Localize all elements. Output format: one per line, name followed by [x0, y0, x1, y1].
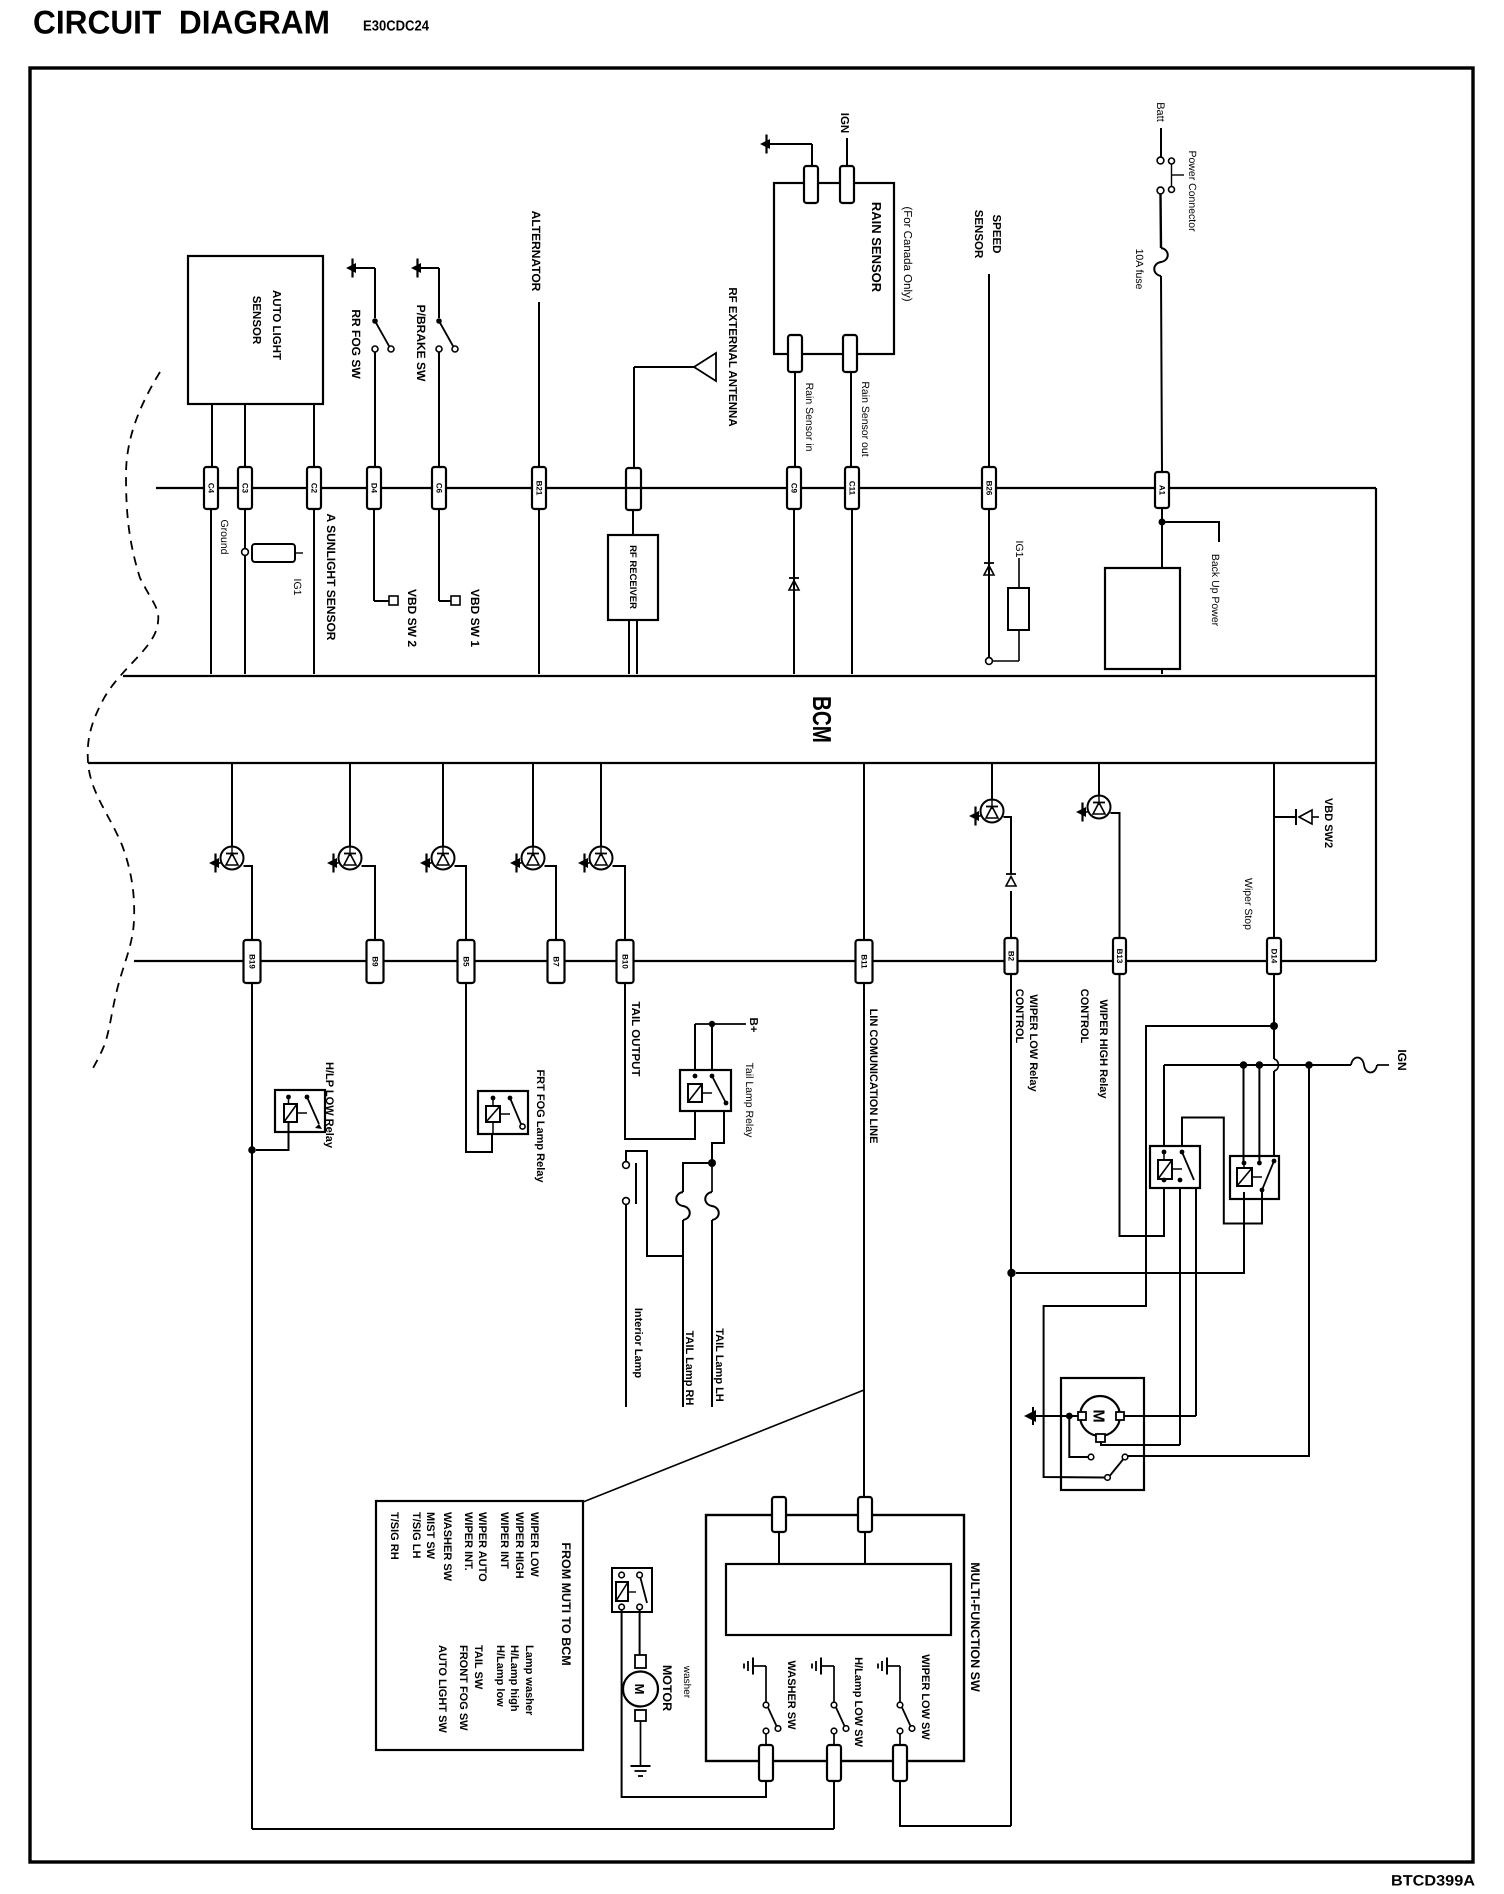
connector C3 — [238, 467, 252, 509]
wire tail relay output — [712, 1111, 724, 1163]
wire BCM output wiper stop to D14 — [1273, 762, 1275, 938]
wire wiper relay1 coil bottom to WIPER HIGH — [1163, 1188, 1165, 1236]
wire from B26 with diode and IG1 resistor — [988, 509, 990, 657]
connector B26 — [982, 467, 996, 509]
connector A1 — [1155, 472, 1169, 508]
box RAIN SENSOR — [774, 183, 894, 354]
fuse tail lamp RH — [676, 1192, 690, 1220]
connector D4 — [367, 467, 381, 509]
svg-text:T/SIG RH: T/SIG RH — [388, 1512, 400, 1560]
svg-text:Lamp washer: Lamp washer — [523, 1645, 535, 1716]
relay wiper relay 1 — [1150, 1146, 1200, 1188]
wire from C3 with IG1 resistor — [244, 509, 246, 674]
svg-text:MIST SW: MIST SW — [424, 1512, 436, 1560]
svg-text:WIPER INT: WIPER INT — [498, 1512, 510, 1569]
svg-text:WIPER LOW Relay: WIPER LOW Relay — [1027, 994, 1039, 1092]
wire wiper relay1 NC contact down — [1179, 1188, 1181, 1445]
wire VBD SW 2 from D4 — [373, 509, 375, 601]
connector C2 — [307, 467, 321, 509]
wire lamp to B13 — [1111, 813, 1120, 938]
connector C4 — [204, 467, 218, 509]
wire TAIL Lamp LH — [711, 1220, 713, 1407]
rain sensor bottom connector pin a — [788, 335, 802, 372]
connector B11 — [856, 940, 873, 983]
svg-text:WASHER SW: WASHER SW — [441, 1512, 453, 1582]
svg-text:Rain Sensor in: Rain Sensor in — [803, 383, 815, 452]
ground washer motor — [631, 1765, 651, 1767]
switch WIPER LOW SW — [886, 1658, 888, 1675]
svg-text:C4: C4 — [206, 483, 215, 494]
svg-text:H/LP LOW Relay: H/LP LOW Relay — [323, 1062, 335, 1149]
svg-text:Wiper Stop: Wiper Stop — [1242, 878, 1254, 930]
svg-text:10A fuse: 10A fuse — [1133, 249, 1145, 290]
wire BCM top bus — [156, 487, 1376, 489]
svg-text:C3: C3 — [240, 483, 249, 494]
rain sensor bottom connector pin b — [843, 335, 857, 372]
svg-text:A SUNLIGHT SENSOR: A SUNLIGHT SENSOR — [324, 514, 338, 641]
box MULTI-FUNCTION SW — [706, 1515, 964, 1761]
svg-text:SENSOR: SENSOR — [972, 210, 984, 259]
wire A SUNLIGHT SENSOR from C2 — [313, 509, 315, 674]
connector B5 — [458, 940, 475, 983]
wire lamp 2 to connector — [362, 866, 376, 940]
svg-text:B26: B26 — [984, 481, 993, 496]
diagonal leader line — [583, 1390, 864, 1502]
wire auto light sensor pin3 to C2 — [313, 404, 315, 467]
fuse tail lamp LH feed — [711, 1163, 713, 1192]
svg-text:RR FOG SW: RR FOG SW — [349, 309, 363, 379]
wire lamp 1 to connector — [244, 866, 253, 940]
antenna RF EXTERNAL ANTENNA — [634, 366, 694, 368]
switch interior lamp — [623, 1162, 630, 1169]
svg-text:C2: C2 — [309, 483, 318, 494]
indicator lamp wiper high — [1088, 796, 1111, 819]
connector B19 — [244, 940, 261, 983]
svg-text:B+: B+ — [747, 1017, 759, 1032]
svg-text:M: M — [632, 1684, 647, 1695]
rail B+ — [695, 1023, 746, 1025]
indicator lamp 3 — [432, 847, 455, 870]
svg-text:H/Lamp LOW SW: H/Lamp LOW SW — [852, 1657, 864, 1747]
connector MF top 2 — [858, 1497, 872, 1532]
svg-text:Power Connector: Power Connector — [1186, 150, 1198, 232]
wire speed sensor to B26 — [988, 274, 990, 467]
wire MF top2 to body — [864, 1532, 866, 1564]
svg-text:B13: B13 — [1115, 949, 1124, 964]
svg-text:P/BRAKE SW: P/BRAKE SW — [414, 305, 428, 382]
connector D14 — [1267, 938, 1281, 974]
wire connector to RF RECEIVER — [632, 510, 634, 535]
wire BCM output 1 — [231, 762, 233, 847]
wire Ground from C4 — [210, 509, 212, 674]
wire tail relay switch to B+ rail — [711, 1024, 713, 1070]
svg-text:Rain Sensor out: Rain Sensor out — [859, 381, 871, 456]
svg-text:FRT FOG Lamp Relay: FRT FOG Lamp Relay — [534, 1069, 546, 1183]
svg-text:(For Canada Only): (For Canada Only) — [901, 206, 913, 301]
svg-text:Interior Lamp: Interior Lamp — [632, 1308, 644, 1379]
wire BCM output wiper high — [1098, 762, 1100, 796]
wire bottom horizontal to H/Lamp LOW SW connector — [252, 1828, 834, 1830]
box RF RECEIVER — [608, 535, 658, 620]
wire BCM band top — [123, 675, 1376, 677]
relay FRT FOG Lamp Relay — [478, 1091, 528, 1134]
indicator lamp 2 — [339, 847, 362, 870]
connector MF bottom h/lamp — [827, 1745, 841, 1781]
wire auto light sensor pin1 to C4 — [211, 404, 213, 467]
svg-text:CONTROL: CONTROL — [1013, 989, 1025, 1044]
wire auto light sensor pin2 to C3 — [244, 404, 246, 467]
svg-text:RF RECEIVER: RF RECEIVER — [627, 545, 638, 609]
svg-text:H/Lamp high: H/Lamp high — [508, 1645, 520, 1712]
connector B13 — [1113, 938, 1126, 974]
svg-text:B5: B5 — [461, 956, 470, 967]
motor washer MOTOR — [635, 1655, 646, 1668]
wire IGN rail to park switch common — [1128, 1065, 1309, 1456]
wire TAIL Lamp RH — [682, 1220, 684, 1407]
svg-text:ALTERNATOR: ALTERNATOR — [529, 211, 543, 292]
wire B10 TAIL OUTPUT to tail lamp relay — [625, 983, 695, 1139]
svg-text:Tail Lamp Relay: Tail Lamp Relay — [743, 1063, 755, 1138]
svg-text:CONTROL: CONTROL — [1078, 989, 1090, 1044]
connector MF top 1 — [772, 1497, 786, 1532]
wire wiper relay1 NO contact to motor+ — [1195, 1188, 1197, 1416]
switch H/Lamp LOW SW — [820, 1658, 822, 1675]
svg-text:IG1: IG1 — [1013, 541, 1025, 558]
svg-text:VBD SW2: VBD SW2 — [1322, 798, 1334, 848]
svg-text:Batt: Batt — [1154, 102, 1166, 122]
wire wiper relay1 common loop to relay2 — [1182, 1118, 1262, 1224]
wire IGN rail to wiper relay2 contact — [1258, 1065, 1260, 1163]
wire B2 WIPER LOW relay control — [1010, 974, 1012, 1273]
svg-text:B11: B11 — [859, 954, 868, 969]
svg-text:FROM MUTI TO BCM: FROM MUTI TO BCM — [559, 1542, 573, 1665]
resistor IG1 (horizontal) — [252, 544, 295, 562]
park switch in motor box — [1088, 1454, 1094, 1460]
inner switch body rectangle — [726, 1564, 951, 1635]
svg-text:MOTOR: MOTOR — [660, 1665, 674, 1711]
svg-text:B19: B19 — [247, 954, 256, 969]
svg-text:FRONT FOG SW: FRONT FOG SW — [457, 1645, 469, 1731]
connector B7 — [548, 940, 565, 983]
connector MF bottom washer — [759, 1745, 773, 1781]
svg-text:MULTI-FUNCTION SW: MULTI-FUNCTION SW — [968, 1562, 982, 1692]
wire B5 to FRT FOG relay — [466, 983, 492, 1152]
wire BCM output wiper low — [991, 762, 993, 800]
connector C9 — [787, 467, 801, 509]
wire relay2 net to wiper low dot — [1016, 1224, 1244, 1274]
svg-text:AUTO LIGHT SW: AUTO LIGHT SW — [436, 1645, 448, 1733]
relay washer — [612, 1568, 652, 1612]
fuse IGN — [1351, 1058, 1377, 1073]
rain sensor top connector pin5 — [840, 166, 854, 203]
relay Tail Lamp Relay — [680, 1070, 731, 1111]
relay H/LP LOW Relay — [275, 1090, 325, 1132]
svg-text:WASHER SW: WASHER SW — [785, 1660, 797, 1730]
wire to tail lamp RH fuse — [683, 1163, 712, 1192]
connector MF bottom wiper low — [893, 1745, 907, 1781]
svg-text:SENSOR: SENSOR — [250, 296, 262, 345]
switch P/BRAKE SW — [411, 263, 421, 273]
wire LIN from BCM to B11 — [863, 762, 865, 940]
svg-text:TAIL OUTPUT: TAIL OUTPUT — [629, 1002, 641, 1077]
wire power connector to fuse — [1159, 194, 1162, 248]
svg-text:RAIN SENSOR: RAIN SENSOR — [869, 202, 884, 293]
wire BCM band bottom — [88, 762, 1376, 764]
svg-text:IG1: IG1 — [291, 579, 303, 596]
wire from A1 down — [1161, 508, 1163, 568]
svg-text:VBD SW 2: VBD SW 2 — [405, 589, 419, 647]
svg-text:C9: C9 — [789, 483, 798, 494]
connector B2 — [1005, 938, 1018, 974]
wire H/LP relay coil to junction — [256, 1122, 289, 1150]
wire BCM output 2 — [349, 762, 351, 847]
wire B13 WIPER HIGH relay control — [1120, 974, 1165, 1236]
fuse 10A — [1154, 248, 1168, 276]
svg-text:IGN: IGN — [1395, 1049, 1409, 1070]
svg-text:RF EXTERNAL ANTENNA: RF EXTERNAL ANTENNA — [726, 287, 738, 426]
wire from C11 to BCM — [851, 509, 853, 674]
wire tail relay coil to B+ rail — [694, 1024, 696, 1070]
wire BCM output 3 — [442, 762, 444, 847]
svg-text:IGN: IGN — [838, 113, 850, 133]
svg-text:C11: C11 — [847, 481, 856, 496]
stub VBD SW2 — [1274, 816, 1295, 818]
svg-text:E30CDC24: E30CDC24 — [363, 19, 429, 35]
wire IGN rail to wiper relay2 coil — [1243, 1065, 1245, 1163]
svg-text:D14: D14 — [1269, 949, 1278, 964]
wire motor bottom pin to relay1 NC — [1101, 1442, 1180, 1445]
wire D14 net crossing IGN rail to relay2 — [1273, 1026, 1275, 1059]
svg-text:B7: B7 — [551, 956, 560, 967]
box back up power — [1105, 568, 1180, 669]
svg-text:washer: washer — [681, 1665, 692, 1699]
wire Back Up Power branch — [1162, 522, 1219, 542]
wire lamp 4 to connector — [545, 866, 557, 940]
connector C6 — [432, 467, 446, 509]
svg-text:B9: B9 — [370, 956, 379, 967]
indicator lamp 5 — [590, 847, 613, 870]
connector antenna (blank) — [626, 468, 641, 510]
wire washer motor to ground — [640, 1721, 642, 1766]
wire from B21 to BCM — [538, 509, 540, 674]
wire IGN rail to wiper relay1 coil — [1163, 1065, 1165, 1146]
wire MF top1 to body — [778, 1532, 780, 1564]
wire lamp 5 to connector — [613, 866, 626, 940]
svg-text:WIPER LOW: WIPER LOW — [528, 1512, 540, 1577]
wire BCM lower bus — [134, 960, 1376, 962]
wire motor right pin to relay1 NO — [1124, 1415, 1196, 1417]
indicator lamp wiper low — [981, 800, 1004, 823]
wire BCM right edge — [1375, 488, 1377, 961]
wire wiper relay2 coil bottom — [1243, 1192, 1245, 1224]
svg-text:B2: B2 — [1006, 951, 1015, 962]
wire Rain Sensor in — [794, 372, 796, 467]
wire D14 wiper stop down — [1273, 974, 1275, 1026]
svg-text:SPEED: SPEED — [990, 215, 1002, 254]
wire Batt to power connector — [1160, 128, 1162, 157]
svg-text:WIPER HIGH Relay: WIPER HIGH Relay — [1097, 999, 1109, 1099]
wire interior lamp switch to RH wire — [626, 1151, 683, 1256]
svg-text:WIPER INT.: WIPER INT. — [462, 1512, 474, 1571]
wire Rain Sensor out — [850, 372, 852, 467]
wire RF RECEIVER to BCM (pair) — [628, 620, 630, 674]
svg-text:BCM: BCM — [807, 696, 837, 743]
svg-text:A1: A1 — [1157, 485, 1166, 496]
box FROM MUTI TO BCM — [376, 1501, 583, 1750]
box AUTO LIGHT SENSOR — [188, 256, 323, 404]
wire BCM output 4 — [532, 762, 534, 847]
wire motor left to feed arrow — [1036, 1415, 1078, 1417]
wire from C9 to BCM with diode — [793, 509, 795, 674]
relay wiper relay 2 — [1230, 1156, 1279, 1199]
svg-text:AUTO LIGHT: AUTO LIGHT — [270, 290, 282, 360]
wire washer relay to washer sw connector — [622, 1610, 766, 1797]
wire B19 long vertical to MF switch — [251, 983, 253, 1829]
wire Interior Lamp — [625, 1204, 627, 1407]
svg-text:WIPER LOW SW: WIPER LOW SW — [919, 1654, 931, 1740]
wire fuse to A1 — [1161, 276, 1162, 472]
wire B11 LIN COMUNICATION LINE — [863, 983, 865, 1497]
svg-text:WIPER HIGH: WIPER HIGH — [513, 1512, 525, 1579]
svg-text:C6: C6 — [434, 483, 443, 494]
svg-text:LIN COMUNICATION LINE: LIN COMUNICATION LINE — [867, 1009, 879, 1144]
wire lamp 3 to connector — [455, 866, 467, 940]
svg-text:D4: D4 — [369, 483, 378, 494]
wire lamp to B2 with diode — [1004, 817, 1012, 874]
ground for rain sensor — [760, 139, 770, 149]
switch RR FOG SW — [346, 263, 356, 273]
svg-text:TAIL Lamp LH: TAIL Lamp LH — [713, 1328, 725, 1402]
switch WASHER SW — [752, 1658, 754, 1675]
rain sensor top connector pin3 — [804, 166, 818, 203]
svg-text:Back Up Power: Back Up Power — [1209, 554, 1221, 627]
svg-text:VBD SW 1: VBD SW 1 — [468, 589, 482, 647]
motor M wiper — [1080, 1396, 1120, 1436]
svg-text:BTCD399A: BTCD399A — [1391, 1873, 1475, 1890]
torn-edge dashed curve — [88, 372, 160, 1072]
wire antenna to connector — [633, 367, 635, 468]
indicator lamp 4 — [522, 847, 545, 870]
indicator lamp 1 — [221, 847, 244, 870]
svg-text:TAIL Lamp RH: TAIL Lamp RH — [683, 1331, 695, 1406]
wire alternator to B21 — [538, 302, 540, 467]
wire wiper stop to park switch — [1044, 1026, 1274, 1478]
box wiper motor — [1061, 1378, 1144, 1490]
connector B21 — [532, 467, 546, 509]
svg-text:M: M — [1090, 1409, 1107, 1422]
power connector pins — [1157, 157, 1164, 164]
connector B9 — [367, 940, 384, 983]
connector C11 — [845, 467, 859, 509]
svg-text:CIRCUIT DIAGRAM: CIRCUIT DIAGRAM — [33, 4, 330, 41]
rail IGN — [1164, 1064, 1351, 1066]
svg-text:Ground: Ground — [218, 519, 230, 554]
connector B10 — [617, 940, 634, 983]
svg-text:WIPER AUTO: WIPER AUTO — [476, 1512, 488, 1582]
svg-text:T/SIG LH: T/SIG LH — [410, 1512, 422, 1559]
svg-text:TAIL SW: TAIL SW — [472, 1645, 484, 1690]
wire VBD SW 1 from C6 — [438, 509, 440, 601]
svg-text:H/Lamp low: H/Lamp low — [494, 1645, 506, 1707]
wire BCM output 5 — [600, 762, 602, 847]
svg-text:B10: B10 — [620, 954, 629, 969]
wire washer relay to washer motor — [639, 1610, 641, 1655]
svg-text:B21: B21 — [534, 481, 543, 496]
